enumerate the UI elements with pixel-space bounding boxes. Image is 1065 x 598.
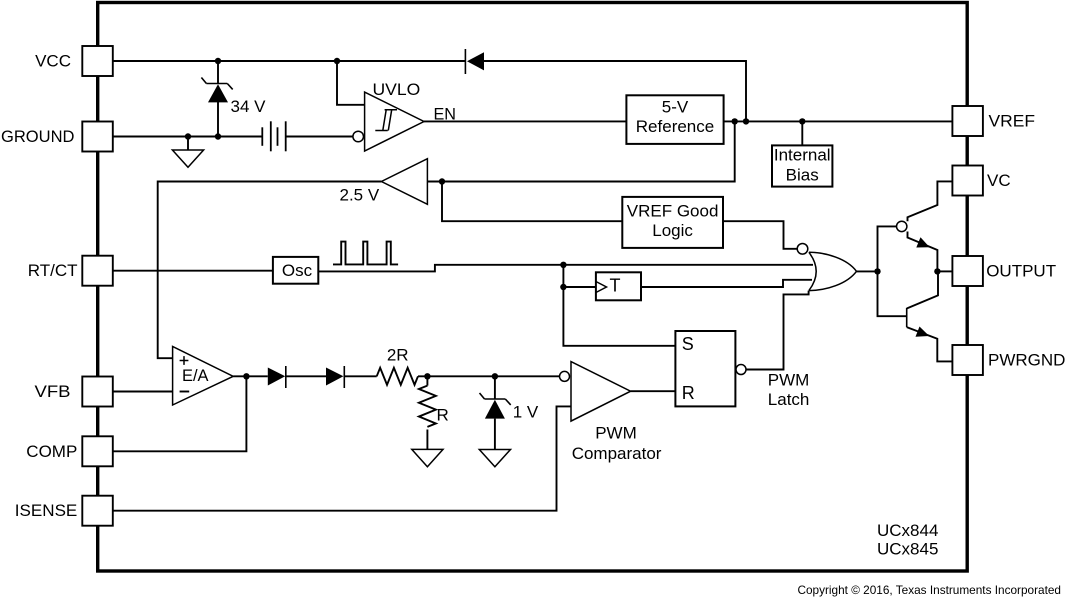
diode VREF-to-VCC	[465, 49, 484, 74]
wire 2R to comparator	[418, 375, 560, 377]
VREF Good Logic box	[622, 197, 723, 248]
pin GROUND	[82, 122, 113, 152]
svg-text:1 V: 1 V	[513, 403, 539, 422]
wire to T flop	[563, 286, 596, 288]
svg-text:Osc: Osc	[282, 261, 313, 280]
wire D1-D2	[286, 375, 326, 377]
svg-text:R: R	[437, 405, 449, 424]
pin ISENSE	[82, 496, 113, 526]
svg-text:ISENSE: ISENSE	[15, 501, 78, 520]
diode D2	[326, 366, 344, 388]
pin COMP	[82, 436, 113, 466]
wire zener branch	[217, 61, 219, 84]
RT/CT wire	[113, 270, 273, 272]
node OR out	[874, 268, 880, 274]
svg-text:S: S	[682, 334, 694, 354]
svg-text:GROUND: GROUND	[1, 127, 75, 146]
wire internal bias stub	[801, 121, 803, 145]
svg-text:Bias: Bias	[786, 166, 819, 185]
ground	[412, 449, 443, 466]
clock waveform	[333, 242, 398, 265]
wire comparator to latch R	[631, 390, 676, 392]
pin VC	[952, 166, 983, 196]
wire EN	[424, 120, 626, 122]
ground	[172, 150, 203, 167]
pin VCC	[82, 46, 113, 76]
svg-text:5-V: 5-V	[662, 97, 689, 116]
Internal Bias box	[772, 145, 832, 186]
or-gate U3	[797, 244, 856, 291]
wire vref-good tap	[442, 182, 622, 222]
svg-text:34 V: 34 V	[231, 97, 267, 116]
svg-text:UCx844: UCx844	[877, 521, 938, 540]
pin VREF	[952, 106, 983, 136]
svg-text:PWRGND: PWRGND	[988, 351, 1065, 370]
node ref-loop	[732, 118, 738, 124]
wire battery to UVLO	[286, 136, 353, 138]
wire COMP to EA out	[113, 376, 246, 451]
wire zener to ground rail	[217, 102, 219, 137]
wire output rail	[937, 270, 952, 272]
svg-text:R: R	[682, 383, 695, 403]
wire osc to OR	[563, 264, 813, 266]
wire vref-good to OR	[723, 221, 797, 249]
node R divider	[424, 373, 430, 379]
latch PWM (S-R)	[675, 331, 735, 406]
wire osc down to latch S	[563, 265, 675, 346]
wire OR node up to Q1 base	[878, 226, 897, 271]
svg-text:OUTPUT: OUTPUT	[986, 262, 1056, 281]
svg-text:VC: VC	[987, 171, 1011, 190]
wire D2 to 2R	[344, 375, 376, 377]
node EA out	[243, 373, 249, 379]
5-V Reference box	[626, 95, 723, 144]
svg-text:Internal: Internal	[774, 146, 831, 165]
svg-text:Logic: Logic	[652, 221, 693, 240]
wire VFB input	[113, 391, 173, 393]
comparator + bubble	[560, 371, 570, 381]
latch Q bubble	[736, 365, 746, 375]
svg-text:Latch: Latch	[768, 390, 810, 409]
node zener tap	[492, 373, 498, 379]
node VCC-UVLO	[334, 58, 340, 64]
wire isense to comparator	[113, 406, 571, 510]
wire VCC rail right of diode	[484, 61, 746, 121]
wire VREF rail	[724, 120, 953, 122]
svg-text:VFB: VFB	[35, 382, 71, 401]
resistor R	[419, 386, 436, 427]
IC boundary	[98, 3, 968, 572]
wire R to ground	[426, 430, 428, 450]
node buffer input	[439, 178, 445, 184]
svg-text:E/A: E/A	[182, 366, 209, 385]
flip-flop T	[596, 272, 641, 300]
op-amp PWM comparator	[571, 362, 631, 422]
resistor 2R	[377, 368, 418, 385]
Osc box	[273, 257, 318, 284]
svg-text:VREF Good: VREF Good	[627, 201, 719, 220]
pin RT/CT	[82, 256, 113, 286]
svg-text:PWM: PWM	[595, 424, 637, 443]
node output	[934, 268, 940, 274]
transistor Q1	[897, 181, 953, 271]
pin OUTPUT	[952, 256, 983, 286]
pin PWRGND	[952, 345, 983, 375]
op-amp E/A	[173, 346, 234, 405]
wire T output	[641, 280, 812, 287]
svg-text:UVLO: UVLO	[373, 80, 421, 99]
wire VCC rail	[113, 60, 465, 62]
node GROUND-sym	[185, 133, 191, 139]
node ref-bias	[799, 118, 805, 124]
wire ground stub	[187, 137, 189, 151]
svg-text:Comparator: Comparator	[572, 444, 662, 463]
wire ref down loop	[427, 121, 734, 181]
node osc-or	[560, 262, 566, 268]
svg-text:UCx845: UCx845	[877, 540, 938, 559]
transistor Q2	[907, 271, 953, 361]
node osc-t	[560, 284, 566, 290]
svg-text:PWM: PWM	[768, 371, 810, 390]
node ref-diode	[743, 118, 749, 124]
wire GROUND rail	[113, 136, 262, 138]
wire UVLO vcc sense	[337, 61, 365, 105]
svg-text:Copyright © 2016, Texas Instru: Copyright © 2016, Texas Instruments Inco…	[797, 583, 1061, 597]
svg-text:Reference: Reference	[636, 117, 714, 136]
wire R stub top	[426, 376, 428, 385]
op-amp 2.5V buffer	[381, 159, 427, 205]
ground	[479, 450, 510, 467]
node VCC-zener	[215, 58, 221, 64]
zener 1V	[480, 376, 511, 449]
wire EA output	[233, 375, 268, 377]
wire osc output	[318, 265, 563, 272]
wire OR output	[857, 270, 878, 272]
svg-text:VREF: VREF	[989, 112, 1036, 131]
diode D1	[268, 366, 286, 388]
wire buffer to EA	[158, 182, 382, 359]
wire OR node down to Q2 base	[878, 271, 907, 316]
svg-text:COMP: COMP	[26, 442, 77, 461]
zener 34V	[201, 78, 232, 103]
node GROUND-zener	[215, 133, 221, 139]
battery (UVLO threshold)	[262, 121, 285, 151]
svg-text:2R: 2R	[387, 345, 409, 364]
svg-text:T: T	[610, 276, 621, 296]
svg-text:RT/CT: RT/CT	[28, 261, 78, 280]
op-amp UVLO comparator	[353, 92, 424, 151]
svg-text:2.5 V: 2.5 V	[339, 185, 379, 204]
wire latch Q to OR	[746, 291, 809, 370]
pin VFB	[82, 377, 113, 407]
svg-text:VCC: VCC	[35, 52, 71, 71]
